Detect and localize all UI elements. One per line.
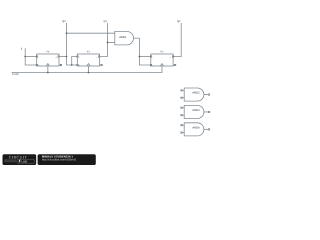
AND gate AND1 bbox=[115, 31, 134, 45]
AND gate AND3 bbox=[182, 105, 209, 118]
svg-text:AND3: AND3 bbox=[192, 109, 200, 112]
node dot F2 J bbox=[139, 56, 141, 58]
wire F1 JK bracket bbox=[72, 57, 78, 66]
stub F2 Qbar bbox=[173, 64, 175, 66]
CircuitLab watermark logo bbox=[3, 154, 37, 165]
svg-text:Q1: Q1 bbox=[103, 20, 107, 23]
stub F1 Qbar bbox=[100, 64, 102, 66]
svg-text:CLOK: CLOK bbox=[12, 73, 19, 76]
wire F2 Q to Q2 flag bbox=[173, 23, 181, 57]
node dot Q0 branch bbox=[66, 32, 68, 34]
node dot clock F0 bbox=[47, 72, 49, 74]
wire F0 Q to node bbox=[59, 56, 67, 58]
wire Q0 vertical bbox=[67, 23, 78, 65]
node dot clock F1 bbox=[88, 72, 90, 74]
node dot Q0 pin bbox=[66, 56, 68, 58]
wire F0 clock drop bbox=[47, 66, 49, 73]
wire Q1 to AND1 bottom input bbox=[108, 41, 115, 43]
AND3 terminals bbox=[181, 107, 210, 116]
watermark info box bbox=[38, 154, 96, 165]
AND4 terminals bbox=[181, 124, 210, 133]
node dot F0 J bbox=[24, 56, 26, 58]
flip-flop F2 bbox=[151, 54, 173, 66]
node dot F1 K bracket bbox=[71, 64, 73, 66]
wire AND1 out to F2 J bbox=[139, 56, 150, 58]
node 1 input wire vertical bbox=[25, 48, 37, 65]
wire F1 Q to Q1 vertical bbox=[100, 23, 108, 57]
wire F1 clock drop bbox=[87, 66, 89, 73]
flip-flop F0 bbox=[37, 54, 59, 66]
wire clock rail bbox=[12, 66, 162, 73]
AND2 terminals bbox=[181, 90, 210, 99]
svg-text:AND2: AND2 bbox=[192, 92, 200, 95]
pin letters flip-flops bbox=[38, 56, 171, 67]
svg-text:LAB: LAB bbox=[21, 159, 27, 163]
svg-text:http://circuitlab.com/c63bn43: http://circuitlab.com/c63bn43 bbox=[42, 158, 77, 161]
node dot AND1 bottom input bbox=[107, 42, 109, 44]
svg-text:AND1: AND1 bbox=[119, 36, 127, 39]
wire Q0 to AND1 top input bbox=[67, 32, 115, 34]
flip-flop F1 bbox=[77, 54, 99, 66]
AND gate AND4 bbox=[182, 123, 209, 136]
stub F0 Qbar bbox=[59, 64, 61, 66]
junction dots bbox=[24, 32, 140, 73]
svg-text:AND4: AND4 bbox=[192, 127, 200, 130]
pin terminal squares flip-flops bbox=[36, 56, 176, 66]
wire J input F0 bbox=[25, 56, 37, 58]
wire AND1 output to F2 JK bbox=[133, 38, 150, 65]
AND gate AND2 bbox=[182, 88, 209, 101]
